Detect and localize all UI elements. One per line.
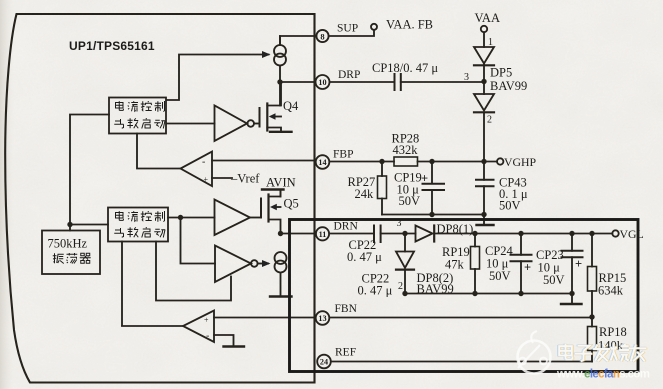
- node VGHP-DP5: [481, 159, 486, 164]
- capacitor CP23: [569, 231, 574, 236]
- capacitor CP24: [518, 231, 523, 236]
- svg-text:DRP: DRP: [338, 69, 360, 81]
- node DRP: [277, 79, 282, 84]
- svg-text:REF: REF: [335, 347, 356, 359]
- wire DRN pin to CP22: [329, 233, 374, 235]
- wire I1 bottom to DRP node and Q4 drain: [279, 36, 281, 106]
- capacitor CP43: [483, 162, 485, 180]
- svg-text:2: 2: [487, 115, 492, 126]
- svg-text:DP5: DP5: [490, 66, 512, 80]
- wire DRP to CP18: [330, 81, 395, 83]
- svg-text:Q5: Q5: [284, 197, 299, 211]
- svg-text:www.elecfans.com: www.elecfans.com: [556, 369, 650, 381]
- node 3 DRN: [402, 231, 407, 236]
- wire pin8 to I1 top: [280, 36, 316, 45]
- comparator U1b output wire: [122, 325, 183, 327]
- svg-text:24k: 24k: [355, 187, 375, 201]
- pin 14: [316, 155, 330, 169]
- wire DP8(1) to VGL line: [434, 233, 612, 235]
- VGL block box: [290, 220, 639, 372]
- svg-text:+: +: [575, 257, 582, 271]
- node FBP-RP27: [379, 159, 384, 164]
- diode DP5 pin2: [474, 94, 494, 111]
- wire DP5 mid node 3: [483, 64, 485, 95]
- buffer A3: [215, 200, 251, 236]
- diode DP5 pin1: [474, 47, 494, 64]
- svg-text:–Vref: –Vref: [230, 172, 260, 186]
- svg-text:VGL: VGL: [620, 227, 644, 241]
- terminal VGHP: [497, 158, 503, 164]
- wire CP18 to node 3: [401, 81, 484, 83]
- wire REF pin to RP18: [331, 361, 592, 363]
- resistor RP27: [381, 162, 383, 177]
- wire bubble to I2 control arrow: [258, 263, 268, 265]
- svg-text:50V: 50V: [543, 273, 565, 287]
- ground rail VGL: [571, 294, 573, 304]
- wire DP5 to VGHP node: [483, 112, 485, 161]
- svg-text:13: 13: [318, 314, 326, 323]
- svg-text:11: 11: [319, 230, 327, 239]
- wire box1 left to bus: [70, 115, 109, 231]
- svg-text:FBN: FBN: [335, 303, 358, 315]
- svg-text:VGHP: VGHP: [504, 155, 537, 169]
- pin 24: [317, 355, 331, 369]
- svg-text:+: +: [204, 175, 209, 184]
- terminal VAA.FB: [371, 24, 377, 30]
- svg-text:0. 47 μ: 0. 47 μ: [358, 284, 393, 298]
- wire RP28 to VGHP terminal: [418, 161, 498, 163]
- svg-text:CP18/0. 47 μ: CP18/0. 47 μ: [372, 61, 438, 75]
- svg-text:750kHz: 750kHz: [48, 237, 88, 251]
- inverter A2: [215, 246, 251, 283]
- svg-text:432k: 432k: [393, 143, 419, 157]
- svg-text:Q4: Q4: [283, 99, 299, 113]
- inverter A1 input wire: [167, 123, 215, 125]
- svg-text:BAV99: BAV99: [417, 282, 454, 296]
- resistor RP15: [589, 231, 594, 236]
- wire FBP pin to RP28: [330, 161, 395, 163]
- IC UP1/TPS65161 outline: [5, 14, 314, 383]
- svg-text:DP8(1): DP8(1): [437, 222, 474, 236]
- pin 10: [316, 75, 330, 89]
- svg-text:AVIN: AVIN: [266, 176, 296, 190]
- svg-text:50V: 50V: [489, 269, 511, 283]
- svg-text:RP18: RP18: [599, 325, 627, 339]
- watermark text dianzifashaoyou: [559, 344, 646, 361]
- wire box2 right to buffer and node: [168, 217, 215, 219]
- wire FBP pin to comparator: [212, 160, 316, 162]
- svg-text:BAV99: BAV99: [490, 79, 527, 93]
- current source I2: [275, 252, 287, 273]
- svg-text:10: 10: [318, 78, 326, 87]
- wire bubble to Q4 gate: [254, 123, 260, 125]
- control block 1: [109, 98, 166, 134]
- logo elecfans: [518, 331, 551, 374]
- ground I2: [270, 295, 292, 297]
- ground U1b: [224, 345, 245, 347]
- capacitor CP19: [431, 162, 433, 184]
- svg-text:3: 3: [464, 72, 469, 83]
- label oscillator: zhen dang qi: [53, 253, 64, 263]
- svg-text:3: 3: [397, 218, 402, 229]
- ground Q4: [270, 131, 292, 133]
- terminal VAA: [481, 26, 487, 32]
- svg-text:+: +: [421, 172, 428, 186]
- svg-text:+: +: [524, 261, 531, 275]
- svg-text:1: 1: [488, 37, 493, 48]
- svg-text:-: -: [202, 157, 205, 168]
- wire buffer to Q5 gate: [250, 217, 261, 219]
- supply bar above Q5: [262, 188, 284, 190]
- svg-text:24: 24: [320, 358, 328, 367]
- wire box2 bottom loop to comparator U1b output: [121, 242, 123, 326]
- resistor RP18: [591, 317, 593, 327]
- transistor Q5: [261, 190, 281, 234]
- label ctrl block1 line1: dian liu kong zhi: [116, 101, 124, 110]
- ground rail stub: [483, 215, 485, 225]
- capacitor CP18: [395, 74, 401, 90]
- label ctrl block2 line1: [116, 211, 124, 220]
- svg-text:14: 14: [318, 158, 326, 167]
- svg-text:SUP: SUP: [337, 23, 358, 35]
- wire pin8 to VAA.FB terminal: [329, 30, 374, 36]
- comparator U1b: [183, 311, 214, 343]
- page margin shading left: [0, 0, 14, 389]
- terminal VGL: [612, 230, 618, 236]
- wire box2 bottom loop to inverter A2: [156, 242, 231, 301]
- resistor RP28: [394, 157, 418, 166]
- pin 13: [316, 311, 330, 325]
- svg-text:-: -: [206, 331, 209, 342]
- svg-text:2: 2: [398, 281, 403, 292]
- svg-text:FBP: FBP: [333, 149, 353, 161]
- wire Vref input: [212, 177, 232, 179]
- svg-text:VAA: VAA: [475, 11, 500, 25]
- svg-text:634k: 634k: [598, 284, 624, 298]
- label ctrl block2 line2: [114, 228, 123, 237]
- node bus-box2: [67, 222, 72, 227]
- node RP28-CP19: [429, 159, 434, 164]
- svg-text:0. 47 μ: 0. 47 μ: [347, 250, 382, 264]
- svg-text:8: 8: [320, 31, 324, 41]
- node box2 out: [178, 215, 183, 220]
- transistor Q4: [260, 82, 282, 132]
- comparator U1a output to box1: [137, 134, 181, 169]
- capacitor CP22: [374, 226, 381, 243]
- node DRN internal: [278, 231, 283, 236]
- current source I1: [274, 45, 286, 66]
- pin 8: [316, 30, 328, 42]
- svg-text:47k: 47k: [445, 258, 465, 272]
- svg-text:50V: 50V: [399, 194, 421, 208]
- wire FBN pin to RP18 node: [330, 317, 593, 319]
- label ctrl block1 line2: yu ruan qi dong: [114, 119, 123, 128]
- wire DRN node to pin 11: [281, 233, 316, 235]
- wire I1 control arrow: [167, 55, 269, 101]
- inverter A2 bubble: [251, 260, 258, 267]
- svg-text:+: +: [204, 316, 209, 325]
- control block 2: [108, 208, 168, 242]
- resistor RP19: [472, 231, 477, 236]
- wire CP22 to node 3: [381, 233, 416, 235]
- wire bus to box2: [70, 224, 108, 226]
- svg-text:50V: 50V: [499, 199, 521, 213]
- wire node down to inverter A2 input: [181, 218, 216, 264]
- svg-text:DRN: DRN: [334, 221, 359, 233]
- rail VGL bottom: [405, 293, 572, 295]
- wire DRP node to pin 10: [280, 81, 315, 83]
- wire FBN pin to comparator: [214, 317, 316, 319]
- pin 11: [316, 227, 329, 240]
- diode DP8(2): [404, 234, 406, 252]
- svg-text:UP1/TPS65161: UP1/TPS65161: [69, 39, 155, 53]
- wire comparator to ground: [214, 335, 234, 346]
- svg-text:VAA. FB: VAA. FB: [386, 18, 433, 32]
- inverter A1: [215, 106, 248, 142]
- wire I2 to ground: [280, 273, 282, 296]
- oscillator box 750kHz: [42, 231, 100, 275]
- rail FBP bottom: [382, 214, 484, 216]
- inverter A1 bubble: [247, 120, 254, 127]
- comparator U1a: [181, 152, 213, 187]
- diode DP8(1): [416, 226, 433, 242]
- wire VAA to DP5: [483, 32, 485, 47]
